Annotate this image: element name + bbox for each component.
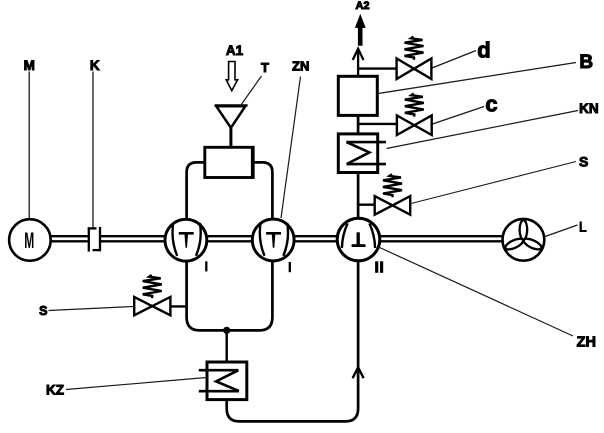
shaft blower II to fan [380,236,502,241]
spring of valve S right [383,174,402,197]
vessel B box [338,76,377,115]
svg-text:S: S [39,304,47,318]
valve S right [375,196,411,215]
svg-text:A1: A1 [226,43,244,58]
svg-text:ZN: ZN [292,59,309,74]
suction pipe left (box to stage1) [187,162,205,219]
coupling K [88,227,101,252]
compressor I stage 2 [252,219,294,261]
valve d [397,59,432,80]
shaft motor to coupling (double line) [51,236,89,241]
svg-text:M: M [24,58,35,73]
svg-text:KZ: KZ [46,383,64,398]
leader line fan to L [545,225,578,237]
spring of valve d [405,37,424,60]
svg-text:KN: KN [579,101,599,116]
cooler KN box [338,134,377,173]
filter box [205,147,253,177]
leader line M label to motor [28,72,30,219]
pipe KZ to blower II [227,261,358,421]
svg-text:M: M [24,228,34,253]
leader line T label to funnel [240,76,262,107]
leader line ZH to blower II [379,247,574,336]
leader line S left to valve [49,307,134,311]
pipe above vessel B [357,49,359,77]
shaft coupling to compressor I stage 1 [100,236,166,241]
blower II [337,218,380,261]
suction pipe right (box to stage2) [253,162,272,219]
flow arrow on riser [353,367,364,378]
interstage U pipe at bottom [187,261,273,330]
pipe junction to cooler KZ [225,330,227,362]
label I (stage 2) [289,262,291,272]
leader line K label to coupling [92,72,94,228]
branch to valve S left [170,305,186,307]
leader line KZ to box [66,378,207,390]
leader line B label to vessel [378,63,576,94]
leader line c label to valve [433,107,485,125]
cooler KZ box [207,362,247,400]
spring of valve S left [143,275,162,298]
fan L [503,219,545,261]
intake funnel T [215,105,248,147]
KN heater zigzag [346,141,386,144]
flow arrow above vessel B [353,49,364,60]
pipe cooler KN to blower II [357,173,360,219]
svg-text:ZH: ZH [577,334,596,350]
branch to valve S right [358,203,375,205]
label II [377,261,382,273]
leader line ZN label to suction pipe [281,77,301,219]
shaft stage1 to stage2 [207,236,253,241]
leader line S right to valve [411,162,576,204]
pipe vessel B to cooler KN [357,115,360,133]
svg-text:B: B [579,52,593,73]
compressor I stage 1 [165,219,207,261]
svg-text:T: T [261,60,269,75]
svg-text:L: L [579,219,587,235]
junction node [223,327,230,334]
valve S left [134,297,170,315]
KZ heater zigzag [199,369,239,372]
spring of valve c [405,94,424,117]
inlet arrow A1 (hollow) [226,62,237,91]
branch to valve c [358,123,397,125]
shaft stage2 to blower II [294,236,338,241]
svg-text:S: S [579,154,588,170]
outlet arrow A2 (solid) [355,14,366,46]
valve c [397,115,432,135]
label I (stage 1) [205,261,207,271]
svg-text:c: c [485,91,497,116]
leader line KN to box [387,111,579,149]
svg-text:K: K [90,58,100,73]
svg-text:A2: A2 [355,0,369,12]
motor M [9,219,51,261]
svg-text:d: d [477,38,490,63]
leader line d label to valve [432,51,476,69]
branch to valve d [358,67,397,69]
